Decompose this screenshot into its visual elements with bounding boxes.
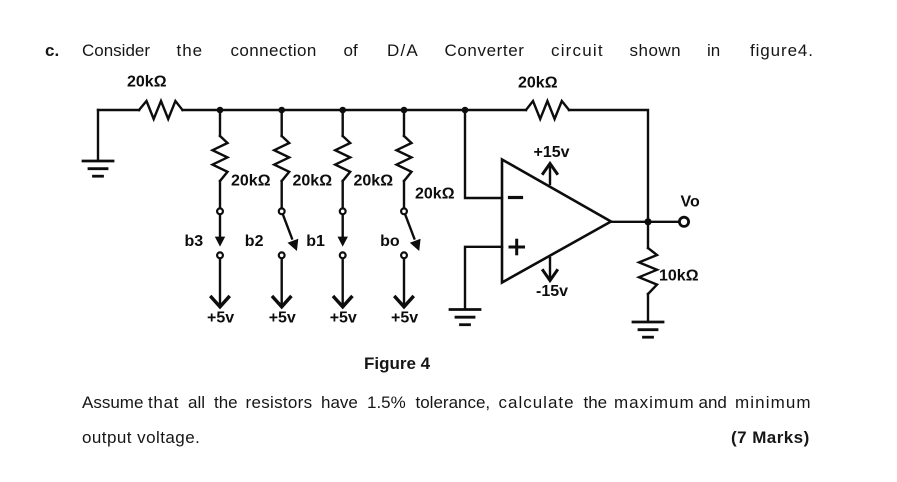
svg-text:10kΩ: 10kΩ — [659, 268, 699, 285]
resistor R5 20k (vertical, bo branch) — [397, 110, 412, 208]
svg-text:+5v: +5v — [207, 310, 234, 327]
wire: left input drop to ground — [97, 110, 99, 160]
switch b3 bottom contact — [217, 252, 223, 258]
svg-text:+15v: +15v — [534, 144, 570, 161]
bottom paragraph — [0, 394, 897, 414]
switch b2 (open) top contact — [279, 208, 285, 214]
svg-text:20kΩ: 20kΩ — [231, 173, 271, 190]
switch b2 arm (open, slanted arrow) — [283, 215, 298, 251]
svg-text:b2: b2 — [245, 233, 264, 250]
wire: non-inverting input to ground — [465, 247, 502, 308]
resistor R7 10k (load, vertical) — [639, 248, 657, 294]
terminal: Vo (open circle) — [679, 217, 688, 226]
svg-text:b1: b1 — [306, 233, 325, 250]
switch bo bottom contact — [401, 252, 407, 258]
wire: b3 source lead with arrow to +5v — [211, 259, 228, 307]
ground (non-inverting input) — [450, 310, 480, 325]
svg-text:+5v: +5v — [391, 310, 418, 327]
wire: b2 source lead with arrow to +5v — [273, 259, 290, 307]
wire: inverting input from rail tee — [465, 110, 502, 198]
switch b2 bottom contact — [279, 252, 285, 258]
resistor R1 20k (horizontal, input) — [139, 101, 183, 119]
svg-text:bo: bo — [380, 233, 400, 250]
svg-text:20kΩ: 20kΩ — [518, 75, 558, 92]
wire: op-amp output to Vo node — [611, 221, 648, 223]
figure caption — [364, 355, 430, 373]
resistor R6 20k (feedback, horizontal) — [526, 101, 569, 119]
ground (left, input) — [83, 161, 113, 176]
wire: output node to terminal — [651, 221, 679, 223]
wire: top rail middle segment (summing rail) — [183, 109, 527, 111]
node: junction dot b3 branch — [217, 107, 224, 114]
op-amp inverting pin mark - — [510, 196, 522, 199]
switch bo arm (open, slanted arrow) — [406, 215, 421, 251]
svg-text:b3: b3 — [185, 233, 204, 250]
wire: output node down to 10k — [647, 222, 649, 248]
wire: top rail left segment — [98, 109, 139, 111]
svg-text:-15v: -15v — [536, 283, 568, 300]
switch b3 arm (closed, arrow down) — [215, 216, 225, 247]
switch b1 bottom contact — [340, 252, 346, 258]
wire: b1 source lead with arrow to +5v — [334, 259, 351, 307]
node: output junction dot — [644, 218, 651, 225]
node: junction dot inverting input tee — [462, 107, 469, 114]
svg-text:20kΩ: 20kΩ — [354, 173, 394, 190]
switch b3 (closed) top contact — [217, 208, 223, 214]
question line — [0, 42, 897, 62]
switch bo (open) top contact — [401, 208, 407, 214]
switch b1 arm (closed, arrow down) — [338, 216, 348, 247]
op-amp non-inverting pin mark + — [510, 240, 524, 254]
svg-text:20kΩ: 20kΩ — [127, 74, 167, 91]
ground (below 10k load) — [633, 322, 663, 337]
op-amp U1 — [502, 160, 611, 283]
node: junction dot b1 branch — [339, 107, 346, 114]
resistor R3 20k (vertical, b2 branch) — [274, 110, 289, 208]
wire: 10k to ground — [647, 294, 649, 321]
resistor R2 20k (vertical, b3 branch) — [213, 110, 228, 208]
resistor R4 20k (vertical, b1 branch) — [335, 110, 350, 208]
supply +15v arrow — [543, 164, 557, 185]
svg-text:+5v: +5v — [330, 310, 357, 327]
svg-text:20kΩ: 20kΩ — [415, 186, 455, 203]
wire: feedback to output node — [569, 110, 648, 222]
switch b1 (closed) top contact — [340, 208, 346, 214]
svg-text:20kΩ: 20kΩ — [293, 173, 333, 190]
wire: bo source lead with arrow to +5v — [395, 259, 412, 307]
node: junction dot bo branch — [401, 107, 408, 114]
svg-text:Vo: Vo — [681, 194, 700, 211]
supply -15v arrow — [543, 258, 557, 281]
svg-text:+5v: +5v — [269, 310, 296, 327]
node: junction dot b2 branch — [278, 107, 285, 114]
